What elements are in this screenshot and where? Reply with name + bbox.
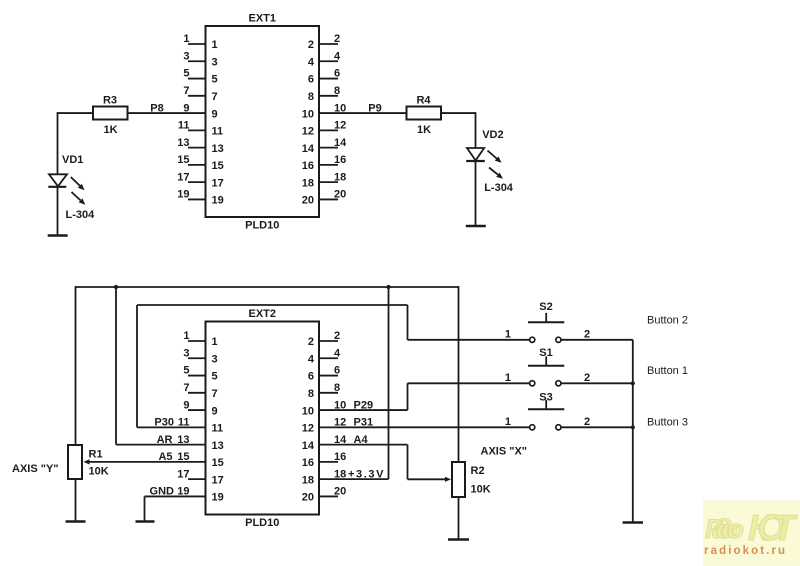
svg-text:12: 12 xyxy=(334,120,346,132)
wire R1 bottom leg xyxy=(75,479,77,522)
wire A4 drop xyxy=(407,445,409,480)
pin 7 stub of EXT2 xyxy=(188,392,206,394)
LED VD2 triangle xyxy=(467,148,484,160)
svg-text:R4: R4 xyxy=(416,95,431,107)
svg-text:9: 9 xyxy=(212,405,218,417)
svg-text:8: 8 xyxy=(334,382,340,394)
pin 6 stub of EXT1 xyxy=(319,78,338,80)
pin 16 stub of EXT1 xyxy=(319,164,338,166)
switch S2 cap bar xyxy=(528,321,564,323)
svg-text:12: 12 xyxy=(302,423,314,435)
wire R4 to VD2 corner xyxy=(441,112,476,114)
wire S2 pin2 out xyxy=(561,339,633,341)
svg-text:2: 2 xyxy=(584,329,590,341)
svg-text:S2: S2 xyxy=(539,301,552,313)
svg-text:1: 1 xyxy=(183,330,189,342)
junction of AR with +3.3V rail xyxy=(114,285,118,289)
pin 7 stub of EXT1 xyxy=(188,95,206,97)
svg-text:VD1: VD1 xyxy=(62,154,83,166)
svg-text:AXIS "Y": AXIS "Y" xyxy=(12,463,59,475)
svg-text:20: 20 xyxy=(302,492,314,504)
pin 19 stub of EXT1 xyxy=(188,198,206,200)
svg-text:PLD10: PLD10 xyxy=(245,220,279,232)
svg-text:17: 17 xyxy=(212,177,224,189)
LED VD2 cathode bar xyxy=(466,160,485,162)
svg-text:AXIS "X": AXIS "X" xyxy=(481,446,528,458)
svg-text:1: 1 xyxy=(183,33,189,45)
potentiometer R1 body xyxy=(68,445,82,479)
svg-text:EXT1: EXT1 xyxy=(248,13,276,25)
svg-text:10K: 10K xyxy=(89,466,109,478)
svg-text:6: 6 xyxy=(308,371,314,383)
svg-text:11: 11 xyxy=(212,126,224,138)
wire S1 pin2 out xyxy=(561,382,633,384)
svg-text:КОТ: КОТ xyxy=(748,507,798,548)
pin 1 stub of EXT2 xyxy=(188,340,206,342)
switch S2 stem xyxy=(545,313,547,322)
LED VD1 light arrows xyxy=(71,177,80,186)
wire P30 horizontal from pin 11 xyxy=(137,426,206,428)
wire A4 from pin 14 xyxy=(319,444,408,446)
svg-text:3: 3 xyxy=(212,353,218,365)
svg-text:19: 19 xyxy=(212,195,224,207)
svg-text:9: 9 xyxy=(183,399,189,411)
svg-text:3: 3 xyxy=(212,56,218,68)
wire R3 to EXT1 pin 9, net P8 xyxy=(128,112,206,114)
resistor R3 body xyxy=(93,107,128,120)
pin 8 stub of EXT2 xyxy=(319,392,338,394)
svg-text:11: 11 xyxy=(212,423,224,435)
pin 15 stub of EXT1 xyxy=(188,164,206,166)
pin 11 stub of EXT1 xyxy=(188,129,206,131)
svg-text:5: 5 xyxy=(183,68,189,80)
wire P29 riser to S1 xyxy=(407,383,409,410)
wire P30 drop to S2 xyxy=(407,305,409,340)
svg-text:7: 7 xyxy=(212,388,218,400)
svg-text:L-304: L-304 xyxy=(484,182,514,194)
svg-text:2: 2 xyxy=(584,372,590,384)
svg-text:S3: S3 xyxy=(539,392,552,404)
svg-text:15: 15 xyxy=(212,457,224,469)
pin 1 stub of EXT1 xyxy=(188,43,206,45)
switch S3 cap bar xyxy=(528,408,564,410)
wire R2 bottom leg xyxy=(458,497,460,540)
svg-text:radiokot.ru: radiokot.ru xyxy=(704,545,787,557)
wire rail to R1 top xyxy=(75,286,77,445)
LED VD1 triangle xyxy=(49,174,67,186)
switch S2 contact 1 xyxy=(530,337,535,342)
svg-text:1: 1 xyxy=(212,336,218,348)
ground of button bus xyxy=(623,521,643,524)
svg-text:16: 16 xyxy=(302,160,314,172)
wire AR horizontal to pin 13 xyxy=(116,444,206,446)
svg-text:18: 18 xyxy=(334,171,346,183)
svg-text:Радио: Радио xyxy=(705,514,744,544)
ground of R2 xyxy=(448,538,469,541)
wire VD1 anode to R3 xyxy=(58,112,94,114)
wire P29 from pin 10 xyxy=(319,409,408,411)
switch S3 stem xyxy=(545,400,547,409)
wire +3.3V from pin 18 xyxy=(319,478,389,480)
svg-text:2: 2 xyxy=(308,336,314,348)
svg-text:15: 15 xyxy=(212,160,224,172)
svg-text:5: 5 xyxy=(212,371,218,383)
wire rail to R2 top xyxy=(458,286,460,462)
wire EXT1 pin 10 to R4, net P9 xyxy=(319,112,407,114)
svg-text:14: 14 xyxy=(302,143,315,155)
wire AR riser xyxy=(115,287,117,445)
switch S1 contact 1 xyxy=(530,381,535,386)
svg-text:R1: R1 xyxy=(89,449,103,461)
svg-text:13: 13 xyxy=(177,137,189,149)
svg-text:Button 3: Button 3 xyxy=(647,417,688,429)
svg-text:1: 1 xyxy=(505,372,511,384)
pin 12 stub of EXT1 xyxy=(319,129,338,131)
switch S1 contact 2 xyxy=(556,381,561,386)
svg-text:10: 10 xyxy=(302,108,314,120)
svg-text:12: 12 xyxy=(302,126,314,138)
svg-text:R2: R2 xyxy=(471,465,485,477)
svg-text:4: 4 xyxy=(334,347,341,359)
wire VD1 anode vertical xyxy=(57,112,59,174)
junction of S1 pin2 with bus xyxy=(631,381,635,385)
svg-text:18: 18 xyxy=(302,474,314,486)
svg-text:3: 3 xyxy=(183,347,189,359)
switch S3 contact 2 xyxy=(556,425,561,430)
wire VD2 anode vertical xyxy=(475,112,477,148)
wire GND drop xyxy=(144,496,146,521)
svg-text:6: 6 xyxy=(334,68,340,80)
wire VD2 cathode to ground xyxy=(475,161,477,226)
svg-text:17: 17 xyxy=(212,474,224,486)
pin 14 stub of EXT1 xyxy=(319,147,338,149)
svg-text:20: 20 xyxy=(334,189,346,201)
svg-text:2: 2 xyxy=(308,39,314,51)
pin 3 stub of EXT2 xyxy=(188,357,206,359)
wire P30 riser xyxy=(136,305,138,427)
svg-text:16: 16 xyxy=(302,457,314,469)
svg-text:14: 14 xyxy=(302,440,315,452)
switch S1 cap bar xyxy=(528,365,564,367)
wire A4 arrow to R2 wiper xyxy=(408,478,446,480)
svg-text:4: 4 xyxy=(334,50,341,62)
svg-text:2: 2 xyxy=(584,416,590,428)
pin 9 stub of EXT2 xyxy=(188,409,206,411)
svg-text:17: 17 xyxy=(177,171,189,183)
svg-text:19: 19 xyxy=(212,492,224,504)
connector EXT2 body xyxy=(206,322,320,515)
wire A5 to R1 wiper arrow xyxy=(90,461,206,463)
pin 2 stub of EXT2 xyxy=(319,340,338,342)
svg-text:L-304: L-304 xyxy=(66,209,96,221)
wire S2 pin1 feed xyxy=(408,339,530,341)
svg-text:18: 18 xyxy=(302,177,314,189)
radiokot logo background xyxy=(703,500,800,566)
pin 5 stub of EXT1 xyxy=(188,78,206,80)
svg-text:8: 8 xyxy=(334,85,340,97)
wire GND from pin 19 xyxy=(145,495,206,497)
wire S3 pin2 out xyxy=(561,426,633,428)
svg-text:1: 1 xyxy=(505,329,511,341)
pin 2 stub of EXT1 xyxy=(319,43,338,45)
ground of VD2 xyxy=(466,225,486,228)
svg-text:16: 16 xyxy=(334,154,346,166)
svg-text:9: 9 xyxy=(212,108,218,120)
pin 8 stub of EXT1 xyxy=(319,95,338,97)
svg-text:P8: P8 xyxy=(150,102,163,114)
LED VD1 cathode bar xyxy=(48,186,66,188)
wire +3.3V top rail xyxy=(76,286,459,288)
svg-text:3: 3 xyxy=(183,50,189,62)
junction of S3 pin2 with bus xyxy=(631,425,635,429)
pin 4 stub of EXT2 xyxy=(319,357,338,359)
svg-text:6: 6 xyxy=(334,365,340,377)
svg-text:19: 19 xyxy=(177,189,189,201)
svg-text:10K: 10K xyxy=(471,484,491,496)
svg-text:13: 13 xyxy=(212,143,224,155)
svg-text:2: 2 xyxy=(334,330,340,342)
svg-text:Button 1: Button 1 xyxy=(647,365,688,377)
svg-text:8: 8 xyxy=(308,91,314,103)
pin 17 stub of EXT1 xyxy=(188,181,206,183)
wire button bus vertical xyxy=(632,340,634,523)
pin 5 stub of EXT2 xyxy=(188,375,206,377)
switch S2 contact 2 xyxy=(556,337,561,342)
pin 20 stub of EXT1 xyxy=(319,198,338,200)
wire S1 pin1 feed xyxy=(408,382,530,384)
svg-text:EXT2: EXT2 xyxy=(248,308,276,320)
pin 6 stub of EXT2 xyxy=(319,375,338,377)
svg-text:5: 5 xyxy=(183,365,189,377)
pin 20 stub of EXT2 xyxy=(319,495,338,497)
svg-text:P9: P9 xyxy=(368,102,381,114)
svg-text:7: 7 xyxy=(183,85,189,97)
svg-text:13: 13 xyxy=(212,440,224,452)
svg-text:15: 15 xyxy=(177,154,189,166)
svg-text:VD2: VD2 xyxy=(482,129,503,141)
svg-text:16: 16 xyxy=(334,451,346,463)
ground of R1 xyxy=(66,520,86,523)
junction of pin18 riser with +3.3V rail xyxy=(386,285,390,289)
ground of EXT2 pin 19 xyxy=(136,520,155,523)
wire P31 pin 12 to S3 pin1 xyxy=(319,426,530,428)
ground of VD1 xyxy=(48,234,68,237)
svg-text:1K: 1K xyxy=(417,124,431,136)
svg-text:1K: 1K xyxy=(103,124,117,136)
pin 17 stub of EXT2 xyxy=(188,478,206,480)
svg-text:7: 7 xyxy=(183,382,189,394)
wire +3.3V riser xyxy=(388,287,390,479)
pin 16 stub of EXT2 xyxy=(319,461,338,463)
svg-text:20: 20 xyxy=(334,486,346,498)
svg-text:Button 2: Button 2 xyxy=(647,315,688,327)
svg-text:7: 7 xyxy=(212,91,218,103)
svg-text:20: 20 xyxy=(302,195,314,207)
svg-text:4: 4 xyxy=(308,353,315,365)
svg-text:1: 1 xyxy=(505,416,511,428)
svg-text:6: 6 xyxy=(308,74,314,86)
LED VD2 light arrows xyxy=(488,151,497,159)
svg-text:14: 14 xyxy=(334,137,347,149)
svg-text:PLD10: PLD10 xyxy=(245,517,279,529)
svg-text:10: 10 xyxy=(302,405,314,417)
wire P30 upper rail xyxy=(137,304,408,306)
svg-text:8: 8 xyxy=(308,388,314,400)
switch S3 contact 1 xyxy=(530,425,535,430)
svg-text:1: 1 xyxy=(212,39,218,51)
switch S1 stem xyxy=(545,356,547,365)
potentiometer R2 body xyxy=(452,462,465,497)
pin 13 stub of EXT1 xyxy=(188,147,206,149)
svg-text:2: 2 xyxy=(334,33,340,45)
svg-text:11: 11 xyxy=(178,120,190,132)
pin 4 stub of EXT1 xyxy=(319,60,338,62)
pin 3 stub of EXT1 xyxy=(188,60,206,62)
svg-text:5: 5 xyxy=(212,74,218,86)
svg-text:17: 17 xyxy=(177,468,189,480)
connector EXT1 body xyxy=(206,26,320,217)
wire VD1 cathode to ground xyxy=(57,187,59,236)
pin 18 stub of EXT1 xyxy=(319,181,338,183)
svg-text:R3: R3 xyxy=(103,95,117,107)
resistor R4 body xyxy=(407,107,442,120)
svg-text:4: 4 xyxy=(308,56,315,68)
svg-text:S1: S1 xyxy=(539,347,552,359)
